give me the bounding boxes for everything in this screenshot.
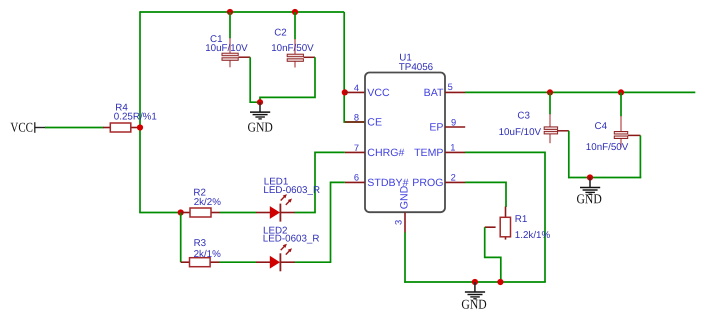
wire bottom gnd row [404, 281, 546, 283]
ground GND1 [248, 102, 274, 134]
junction C2 top [292, 9, 298, 15]
svg-text:6: 6 [354, 173, 359, 183]
svg-text:2: 2 [451, 172, 456, 182]
resistor R1 [485, 207, 551, 242]
svg-text:GND: GND [461, 297, 487, 312]
svg-text:VCC: VCC [367, 87, 390, 99]
svg-text:10uF/10V: 10uF/10V [205, 43, 248, 54]
wire R1 to bottom gnd row [485, 227, 501, 282]
svg-text:R3: R3 [194, 238, 207, 249]
wire pin 9 EP stub [445, 126, 465, 128]
svg-text:10nF/50V: 10nF/50V [586, 142, 629, 153]
wire LED2 to pin6 net [295, 261, 332, 263]
capacitor C4 [586, 92, 641, 152]
ground GND3 [461, 282, 487, 312]
svg-text:CHRG#: CHRG# [367, 147, 404, 159]
wire VCC net to R2 row [139, 212, 181, 214]
junction pin4 [342, 89, 348, 95]
svg-text:10uF/10V: 10uF/10V [499, 127, 542, 138]
svg-text:TEMP: TEMP [414, 147, 443, 159]
junction C4 top [618, 89, 624, 95]
capacitor C1 [205, 12, 250, 67]
junction R2/R3 [178, 209, 184, 215]
junction C1 top [227, 9, 233, 15]
junction GND1 [257, 99, 263, 105]
wire left vertical VCC net [139, 11, 141, 212]
wire LED1 to pin7 net [295, 212, 316, 214]
wire pin3 to bottom gnd row [404, 232, 406, 282]
resistor R3 [181, 238, 221, 267]
wire PROG to R1 [465, 182, 506, 207]
wire R3 to LED2 [219, 261, 256, 263]
IC U1 TP4056 [365, 52, 445, 212]
resistor R2 [181, 188, 222, 217]
svg-text:R1: R1 [515, 214, 528, 225]
svg-text:EP: EP [429, 122, 443, 134]
LED LED1 [256, 176, 320, 221]
wire C4 to GND2 [639, 135, 641, 178]
wire pin 2 PROG stub [445, 181, 465, 183]
svg-text:LED-0603_R: LED-0603_R [263, 234, 320, 245]
ground GND2 [576, 178, 602, 207]
svg-text:0.25R/%1: 0.25R/%1 [114, 111, 157, 122]
wire GND2 row [568, 177, 641, 179]
svg-text:4: 4 [354, 83, 359, 93]
svg-text:GND: GND [248, 120, 274, 135]
wire top bus [140, 11, 344, 13]
svg-text:3: 3 [394, 220, 404, 225]
svg-text:GND: GND [399, 185, 411, 209]
svg-text:8: 8 [354, 113, 359, 123]
svg-text:C2: C2 [274, 27, 287, 38]
svg-text:VCC: VCC [10, 120, 33, 135]
LED LED2 [256, 225, 319, 271]
svg-text:7: 7 [354, 143, 359, 153]
svg-text:9: 9 [451, 117, 456, 127]
wire pin 6 STDBY# to LED2 [331, 182, 365, 262]
wire pin 1 TEMP stub [445, 151, 465, 153]
svg-text:PROG: PROG [412, 177, 443, 189]
svg-text:10nF/50V: 10nF/50V [271, 43, 314, 54]
junction R4 / VCC net [137, 124, 143, 130]
svg-text:C3: C3 [517, 111, 530, 122]
wire TEMP to bottom gnd row [465, 152, 545, 282]
svg-text:2k/1%: 2k/1% [194, 249, 222, 260]
wire pin 5 BAT stub [445, 91, 465, 93]
wire pin 7 CHRG# to LED1 [315, 152, 365, 212]
capacitor C2 [271, 12, 315, 68]
wire C2 to GND [260, 57, 315, 102]
junction C3 top [547, 89, 553, 95]
wire R2 to LED1 [220, 212, 256, 214]
svg-text:CE: CE [367, 117, 382, 129]
wire pin 3 GND stub [404, 213, 406, 233]
junction R1 gnd [497, 279, 503, 285]
svg-text:1: 1 [450, 142, 455, 152]
svg-text:5: 5 [448, 82, 453, 92]
wire pin 4 VCC stub [345, 91, 365, 93]
svg-text:TP4056: TP4056 [399, 62, 434, 73]
wire C1 to GND [250, 57, 260, 102]
svg-text:2k/2%: 2k/2% [194, 197, 222, 208]
port VCC [10, 120, 45, 135]
svg-text:GND: GND [576, 191, 602, 206]
wire VCC to R4 [45, 127, 104, 129]
wire C3 to GND2 [568, 131, 570, 178]
capacitor C3 [499, 92, 569, 143]
resistor R4 [103, 103, 157, 132]
junction GND2 [587, 174, 593, 180]
svg-text:LED-0603_R: LED-0603_R [263, 185, 320, 196]
svg-text:BAT: BAT [424, 87, 444, 99]
wire BAT bus [465, 91, 695, 93]
wire pin 8 CE stub [345, 121, 365, 123]
wire R2/R3 branch vertical [180, 213, 182, 263]
svg-text:1.2k/1%: 1.2k/1% [515, 230, 551, 241]
svg-text:C4: C4 [595, 121, 608, 132]
wire top bus right vertical to U1 [344, 12, 364, 122]
junction GND3 [472, 279, 478, 285]
